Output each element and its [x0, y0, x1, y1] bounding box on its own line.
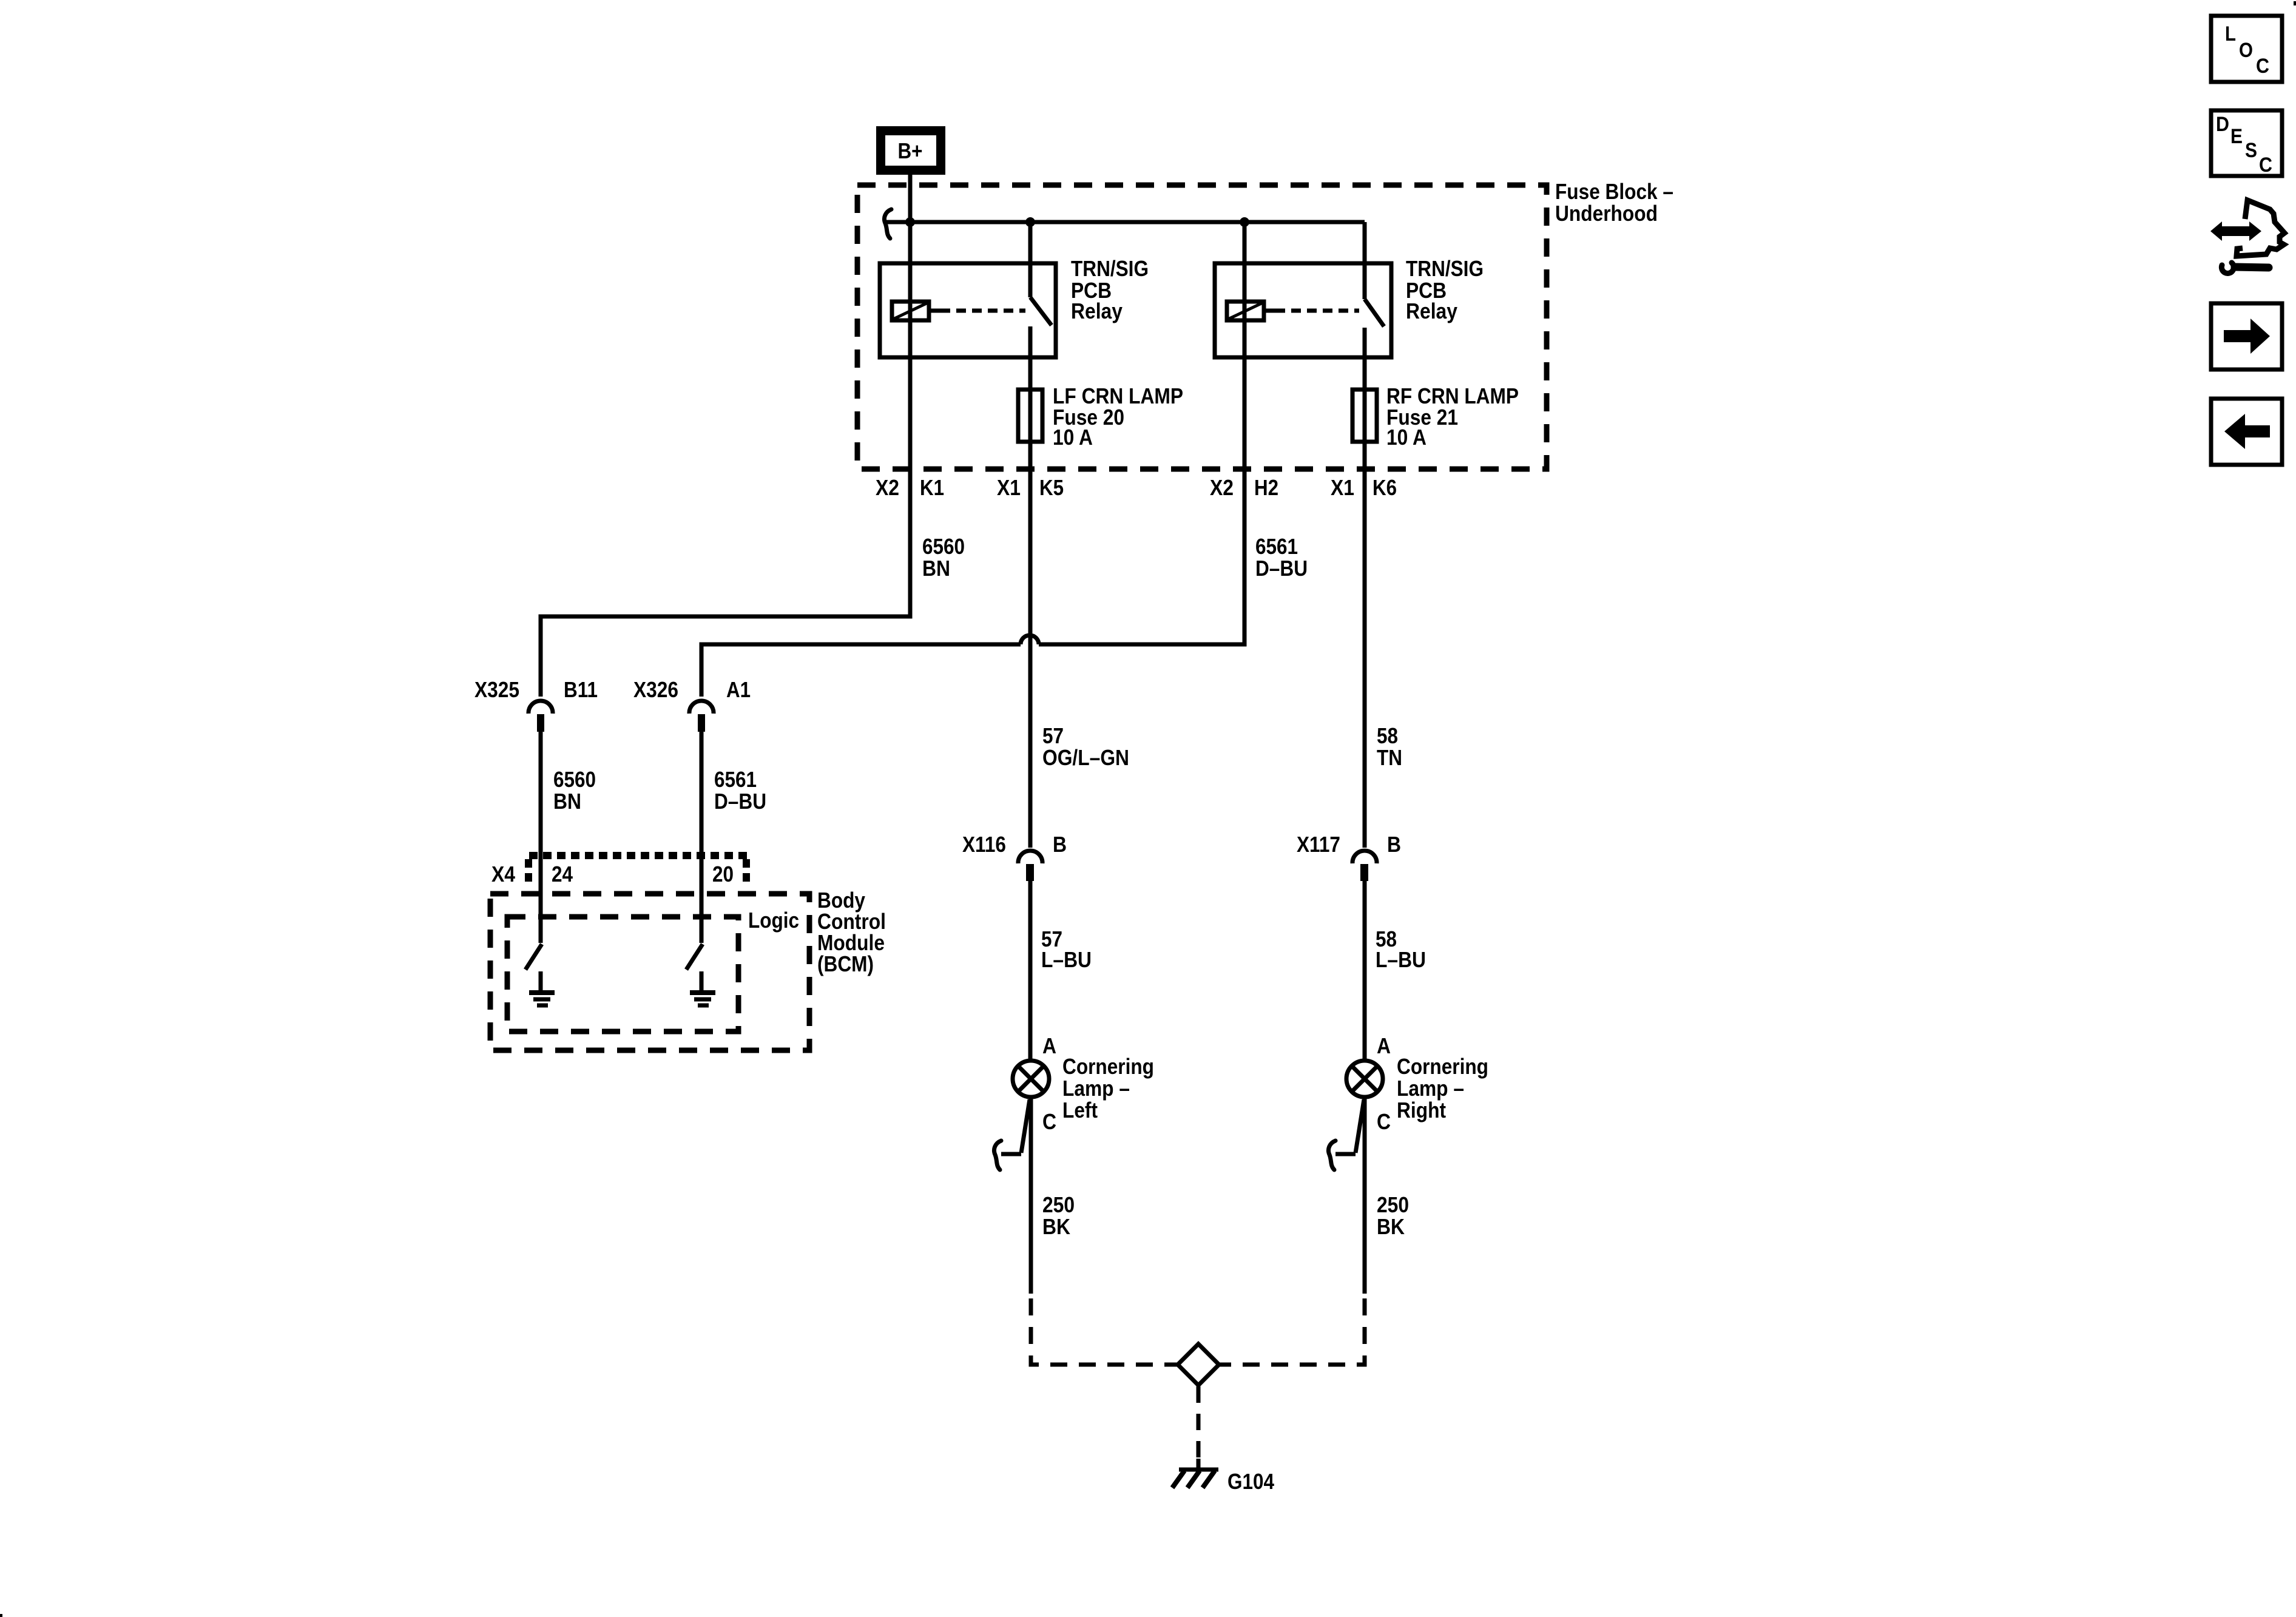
wire label 58 L-BU	[1376, 927, 1426, 972]
wire B+ feed vertical and left branch to X325	[541, 175, 910, 697]
svg-text:X116: X116	[962, 832, 1006, 857]
connector X117 pin B	[1352, 851, 1377, 881]
wire lamp left to ground run	[1029, 1097, 1033, 1294]
cornering lamp left label	[1062, 1054, 1154, 1122]
relay right coil	[1227, 302, 1264, 320]
relay left control dashed link	[931, 309, 1025, 313]
svg-text:A1: A1	[726, 677, 751, 702]
ground symbol right (BCM internal)	[690, 971, 715, 1005]
sidebar connector-repair icon	[2210, 200, 2284, 273]
relay right TRN/SIG PCB Relay box	[1215, 263, 1391, 357]
wire from H2 down and left to X326 with hop over wire 57	[701, 222, 1244, 697]
wire X326 to BCM	[700, 732, 704, 943]
cornering lamp right	[1346, 1061, 1383, 1097]
svg-text:A: A	[1042, 1033, 1056, 1058]
wire X116 to lamp	[1028, 881, 1033, 1061]
svg-text:Cornering: Cornering	[1062, 1054, 1154, 1079]
svg-text:58: 58	[1377, 723, 1398, 748]
relay right switch	[1365, 222, 1384, 326]
wire lamp right to ground run	[1363, 1097, 1367, 1294]
connector X326 pin A1	[689, 701, 714, 732]
wire label 6561 D-BU upper	[1255, 534, 1308, 581]
svg-text:K1: K1	[920, 475, 944, 500]
svg-text:BN: BN	[922, 556, 950, 581]
wire from right relay switch down through fuse 21	[1363, 328, 1367, 848]
svg-text:Right: Right	[1397, 1098, 1446, 1122]
svg-text:L: L	[2225, 22, 2236, 46]
wire from left relay switch down through fuse 20	[1028, 326, 1033, 848]
ground symbol left (BCM internal)	[529, 971, 555, 1005]
BCM driver switch right	[686, 944, 703, 970]
svg-text:S: S	[2245, 139, 2257, 162]
svg-text:O: O	[2239, 39, 2253, 62]
svg-text:X325: X325	[474, 677, 519, 702]
svg-text:B: B	[1387, 832, 1401, 857]
connector X325 labels	[474, 677, 598, 702]
svg-text:X4: X4	[491, 862, 515, 886]
wire label 57 L-BU	[1041, 927, 1092, 972]
wire label 6561 D-BU lower	[714, 767, 766, 814]
svg-text:B: B	[1053, 832, 1067, 857]
fuse block underhood dashed box	[857, 185, 1547, 469]
svg-text:Relay: Relay	[1406, 299, 1457, 323]
svg-text:Logic: Logic	[748, 908, 799, 933]
junction node at B+ wire	[905, 217, 915, 227]
svg-text:G104: G104	[1227, 1469, 1274, 1494]
svg-text:Relay: Relay	[1071, 299, 1123, 323]
fuse Fuse21 RF CRN LAMP 10A	[1352, 390, 1377, 442]
svg-text:250: 250	[1042, 1192, 1075, 1217]
svg-text:C: C	[2259, 154, 2272, 177]
svg-text:C: C	[1377, 1109, 1391, 1134]
S-break branch left lamp	[994, 1099, 1030, 1170]
relay left TRN/SIG PCB Relay box	[880, 263, 1056, 357]
wire label 6560 BN upper	[922, 534, 965, 581]
dashed ground wire right	[1219, 1298, 1365, 1365]
svg-text:250: 250	[1377, 1192, 1409, 1217]
cornering lamp right label	[1397, 1054, 1488, 1122]
dashed ground wire left	[1031, 1298, 1178, 1365]
sidebar back arrow button	[2211, 399, 2282, 465]
svg-text:TN: TN	[1377, 745, 1402, 770]
svg-text:BK: BK	[1377, 1214, 1405, 1239]
BCM label	[817, 888, 886, 976]
wire label 57 OG/L-GN	[1042, 723, 1129, 770]
B+ power symbol	[876, 126, 945, 175]
svg-text:Lamp –: Lamp –	[1062, 1076, 1130, 1101]
fuse 20 label	[1053, 383, 1183, 450]
ground G104	[1172, 1459, 1218, 1488]
connector X325 pin B11	[528, 701, 553, 732]
svg-text:X2: X2	[1210, 475, 1234, 500]
svg-text:OG/L–GN: OG/L–GN	[1042, 745, 1129, 770]
sidebar LOC button	[2211, 16, 2282, 82]
svg-text:57: 57	[1042, 723, 1064, 748]
svg-text:10 A: 10 A	[1386, 425, 1427, 450]
svg-text:6561: 6561	[714, 767, 757, 792]
svg-text:BN: BN	[553, 789, 581, 814]
connector X4 labels	[491, 862, 734, 886]
page corner mark bottom-left	[0, 1614, 2, 1617]
svg-text:Left: Left	[1062, 1098, 1098, 1122]
svg-text:Fuse Block –: Fuse Block –	[1555, 179, 1673, 204]
svg-text:Lamp –: Lamp –	[1397, 1076, 1464, 1101]
svg-text:X2: X2	[876, 475, 899, 500]
fuse block pin labels	[876, 475, 1397, 500]
svg-text:X1: X1	[997, 475, 1021, 500]
svg-text:20: 20	[712, 862, 734, 886]
svg-text:X117: X117	[1297, 832, 1340, 857]
junction node at left relay switch	[1025, 217, 1035, 227]
fuse Fuse20 LF CRN LAMP 10A	[1018, 390, 1042, 442]
svg-text:K5: K5	[1039, 475, 1064, 500]
svg-text:L–BU: L–BU	[1041, 947, 1092, 972]
svg-text:B+: B+	[898, 138, 923, 163]
svg-text:B11: B11	[564, 677, 598, 702]
svg-text:E: E	[2230, 125, 2243, 148]
svg-text:K6: K6	[1373, 475, 1397, 500]
svg-text:D: D	[2216, 113, 2229, 136]
svg-text:6560: 6560	[553, 767, 596, 792]
splice diamond	[1178, 1344, 1219, 1385]
wire X117 to lamp	[1363, 881, 1367, 1061]
svg-text:D–BU: D–BU	[714, 789, 766, 814]
svg-text:6561: 6561	[1255, 534, 1298, 559]
cornering lamp right pin labels	[1377, 1033, 1391, 1134]
svg-text:A: A	[1377, 1033, 1391, 1058]
sidebar DESC button	[2211, 110, 2282, 177]
relay right control dashed link	[1266, 309, 1359, 313]
svg-text:24: 24	[552, 862, 573, 886]
connector X116 labels	[962, 832, 1067, 857]
BCM driver switch left	[525, 944, 542, 970]
svg-text:6560: 6560	[922, 534, 965, 559]
svg-text:BK: BK	[1042, 1214, 1070, 1239]
wire X325 to BCM	[539, 732, 543, 943]
connector X4 dashed line	[528, 856, 747, 885]
Logic dashed box	[507, 917, 738, 1031]
svg-text:H2: H2	[1254, 475, 1278, 500]
cornering lamp left	[1013, 1061, 1049, 1097]
S-break branch right lamp	[1328, 1099, 1364, 1170]
svg-text:L–BU: L–BU	[1376, 947, 1426, 972]
relay left label	[1071, 256, 1149, 323]
relay left switch	[1030, 222, 1052, 325]
svg-text:Underhood: Underhood	[1555, 201, 1658, 226]
fuse block label	[1555, 179, 1673, 226]
connector X117 labels	[1297, 832, 1401, 857]
svg-text:TRN/SIG: TRN/SIG	[1406, 256, 1484, 281]
wire bus horizontal	[886, 220, 1365, 224]
BCM dashed box	[490, 894, 809, 1050]
page corner mark top-right	[2294, 1, 2296, 5]
svg-text:TRN/SIG: TRN/SIG	[1071, 256, 1149, 281]
svg-text:X1: X1	[1331, 475, 1354, 500]
wire label 250 BK left	[1042, 1192, 1075, 1239]
svg-text:D–BU: D–BU	[1255, 556, 1308, 581]
svg-text:(BCM): (BCM)	[817, 951, 874, 976]
S-break hook on bus	[884, 209, 891, 238]
relay left coil	[892, 302, 929, 320]
connector X116 pin B	[1018, 851, 1042, 881]
svg-text:X326: X326	[633, 677, 678, 702]
fuse 21 label	[1386, 383, 1519, 450]
svg-text:Cornering: Cornering	[1397, 1054, 1488, 1079]
svg-text:C: C	[2256, 55, 2269, 78]
cornering lamp left pin labels	[1042, 1033, 1056, 1134]
wire label 250 BK right	[1377, 1192, 1409, 1239]
wire label 6560 BN lower	[553, 767, 596, 814]
sidebar next arrow button	[2211, 303, 2282, 370]
wire label 58 TN	[1377, 723, 1402, 770]
relay right label	[1406, 256, 1484, 323]
junction node at right relay coil	[1240, 217, 1249, 227]
dashed wire diamond to ground	[1197, 1386, 1201, 1468]
connector X326 labels	[633, 677, 751, 702]
svg-text:C: C	[1042, 1109, 1056, 1134]
svg-text:10 A: 10 A	[1053, 425, 1093, 450]
